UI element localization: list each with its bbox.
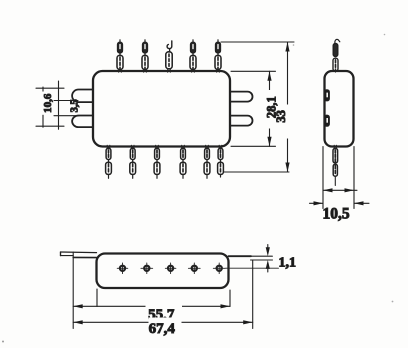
dimension 10,5 outer arrow stubs xyxy=(310,201,370,205)
dimension text 55,7 xyxy=(146,302,183,323)
top row pin 3 with index hook xyxy=(166,41,172,72)
hole 5 (bottom view) xyxy=(213,263,225,274)
dimension 10,5 extension lines xyxy=(323,147,354,209)
hole 3 (bottom view) xyxy=(165,263,176,274)
side view bottom pin xyxy=(333,145,338,185)
dimension 33 extension lines xyxy=(221,42,294,172)
bottom view right flange xyxy=(229,256,273,260)
right mounting tab 2 (plan view) xyxy=(229,116,253,126)
dimension text 33 xyxy=(274,105,291,139)
side view mounting tab 2 edge xyxy=(324,115,329,126)
dimension text 10,5 xyxy=(322,206,349,223)
bottom row pin 5 xyxy=(204,145,210,178)
left mounting tab 2 (plan view) xyxy=(72,116,94,128)
bottom view extension lines xyxy=(73,252,253,329)
dimension text 28,1 xyxy=(264,90,279,129)
scan speck xyxy=(293,44,295,46)
svg-text:1,1: 1,1 xyxy=(279,256,297,271)
hole 4 (bottom view) xyxy=(188,263,200,274)
bottom row pin 4 xyxy=(180,145,186,178)
scan speck xyxy=(2,341,4,343)
hole 2 (bottom view) xyxy=(141,263,153,274)
top row pin 5 xyxy=(215,40,221,73)
dimension 3,5 line xyxy=(58,81,60,129)
bottom row pin 2 xyxy=(130,145,136,178)
relay body (side view) xyxy=(325,71,354,147)
dimension 3,5 extension lines xyxy=(54,101,79,116)
dimension 28,1 line with arrows xyxy=(267,71,271,146)
dimension 10,6 line xyxy=(42,87,44,127)
svg-text:10,6: 10,6 xyxy=(42,93,54,113)
scan speck xyxy=(392,301,394,303)
bottom row pin 3 xyxy=(154,145,160,178)
side view mounting tab 1 edge xyxy=(324,90,329,101)
top row pin 4 xyxy=(190,40,196,73)
relay body (top/plan view) xyxy=(93,71,230,147)
top row pin 2 xyxy=(142,40,148,73)
top row pin 1 xyxy=(117,40,123,73)
bottom row pin 1 xyxy=(106,145,112,178)
svg-text:67,4: 67,4 xyxy=(149,321,176,337)
bottom row pin 6 xyxy=(218,145,224,177)
dimension 1,1 arrows xyxy=(266,245,270,273)
dimension text 67,4 xyxy=(149,318,182,338)
hole 1 (bottom view) xyxy=(117,263,128,274)
scan speck xyxy=(384,34,386,36)
dimension 10,5 inner line with arrows xyxy=(323,188,357,192)
svg-text:10,5: 10,5 xyxy=(322,206,349,223)
dimension 67,4 line with arrows xyxy=(73,320,253,324)
dimension 33 line with arrows xyxy=(285,42,289,172)
dimension text 10,6 xyxy=(41,92,54,115)
right mounting tab 1 (plan view) xyxy=(229,92,253,102)
relay body (bottom view) xyxy=(97,254,229,289)
bottom view left flange xyxy=(61,252,97,258)
dimension text 3,5 xyxy=(69,99,80,112)
svg-text:33: 33 xyxy=(274,110,288,123)
svg-text:3,5: 3,5 xyxy=(69,99,80,112)
dimension 28,1 extension lines xyxy=(231,71,276,146)
left mounting tab 1 (plan view) xyxy=(72,90,94,103)
dimension text 1,1 xyxy=(279,256,297,271)
bottom view centerline through hole 5 xyxy=(226,267,279,269)
dimension 55,7 line with arrows xyxy=(73,304,230,308)
dimension 10,6 extension lines xyxy=(36,88,64,126)
side view top pin with hook xyxy=(333,39,340,72)
